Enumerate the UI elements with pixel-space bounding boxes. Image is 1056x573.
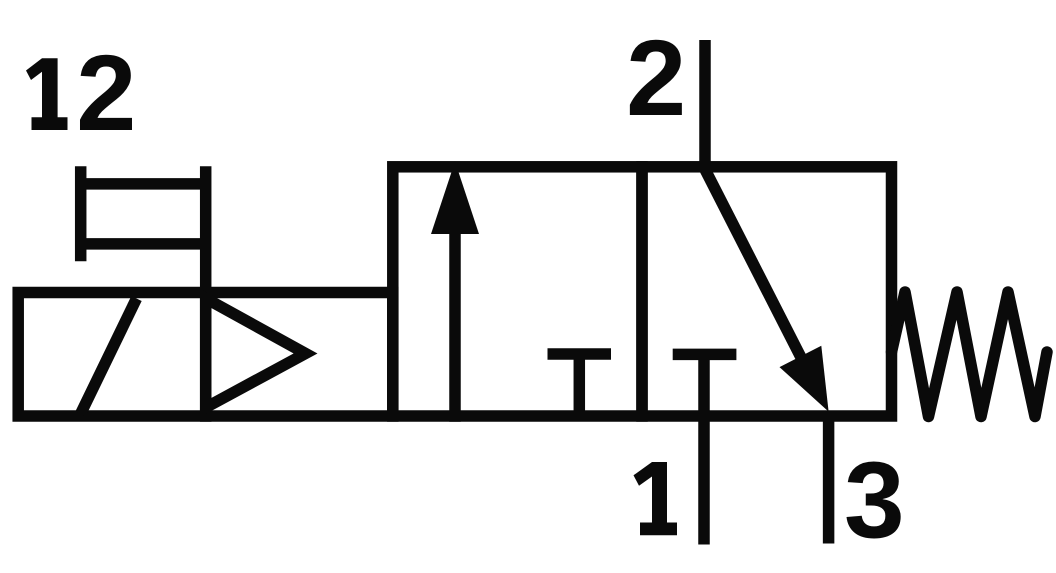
blocked port T left square: stub — [574, 354, 586, 416]
pilot cap right / solenoid divider — [200, 166, 212, 421]
port 3 line — [823, 411, 835, 544]
solenoid box — [18, 293, 393, 417]
port 2 line — [699, 40, 711, 172]
flow arrow head — [431, 162, 479, 235]
port label 2 — [626, 17, 686, 138]
svg-text:2: 2 — [76, 32, 136, 153]
flow diagonal shaft (2 to 3) — [704, 167, 812, 379]
valve body left square — [393, 167, 642, 416]
solenoid coil diagonal — [81, 299, 137, 415]
blocked port T left square: crossbar — [548, 348, 612, 360]
svg-text:3: 3 — [844, 440, 905, 562]
pilot amplifier triangle — [206, 298, 306, 407]
pilot line top — [75, 178, 211, 190]
port label 3 — [844, 440, 905, 562]
pilot line bottom — [75, 238, 211, 250]
blocked port T right square: stub / port 1 line — [698, 354, 710, 544]
blocked port T right square: crossbar — [673, 349, 737, 361]
return spring — [892, 292, 1048, 417]
pilot port label 12 — [26, 32, 136, 153]
port label 1 — [634, 462, 678, 535]
flow diagonal arrow head — [780, 346, 829, 412]
valve body right square — [642, 167, 892, 416]
flow arrow shaft (1 to 2) — [449, 228, 461, 422]
pilot cap left — [75, 166, 87, 261]
svg-text:2: 2 — [626, 17, 686, 138]
